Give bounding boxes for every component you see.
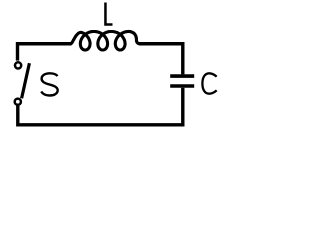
- wire: top rail right segment into right rail down to capacitor: [139, 44, 183, 75]
- wire: left rail (top-left corner, down to switch top terminal): [18, 44, 72, 61]
- label L: [105, 3, 112, 25]
- label S: [41, 73, 58, 95]
- capacitor C bottom plate: [170, 84, 194, 88]
- switch S top terminal circle: [15, 62, 21, 68]
- inductor L coil: [71, 31, 140, 50]
- capacitor C top plate: [170, 74, 194, 78]
- switch S bottom terminal circle: [15, 99, 21, 105]
- wire: bottom rail from switch bottom terminal to bottom-right corner up to capacitor: [18, 88, 183, 125]
- switch S blade (open): [22, 63, 30, 98]
- label C: [202, 73, 216, 93]
